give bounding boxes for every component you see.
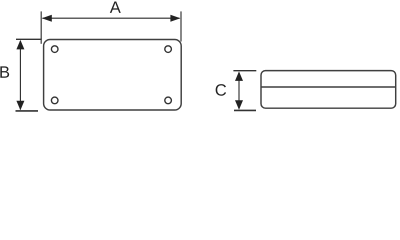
screw hole top-left bbox=[51, 46, 58, 53]
dimension A arrowhead right bbox=[170, 15, 180, 22]
dimension C line bbox=[238, 73, 240, 109]
dimension B tick bottom bbox=[16, 110, 39, 112]
dimension C arrowhead down bbox=[235, 100, 243, 110]
enclosure side view outline bbox=[261, 71, 396, 109]
label A bbox=[110, 2, 121, 13]
dimension A extension line left bbox=[40, 11, 42, 43]
screw hole bottom-right bbox=[165, 97, 172, 104]
screw hole bottom-left bbox=[51, 97, 58, 104]
label C bbox=[216, 84, 226, 96]
dimension B arrowhead up bbox=[16, 40, 24, 50]
dimension A arrowhead left bbox=[42, 15, 52, 22]
dimension B line bbox=[19, 41, 21, 110]
dimension C tick top bbox=[233, 70, 256, 72]
dimension A line bbox=[43, 17, 180, 19]
enclosure top view outline bbox=[44, 40, 182, 111]
dimension A extension line right bbox=[180, 11, 182, 41]
dimension B tick top bbox=[16, 38, 42, 40]
dimension C tick bottom bbox=[234, 109, 256, 111]
dimension B arrowhead down bbox=[16, 101, 24, 111]
screw hole top-right bbox=[165, 46, 172, 53]
label B bbox=[0, 66, 9, 77]
dimension C arrowhead up bbox=[235, 71, 243, 81]
side view lid seam line bbox=[261, 86, 396, 88]
